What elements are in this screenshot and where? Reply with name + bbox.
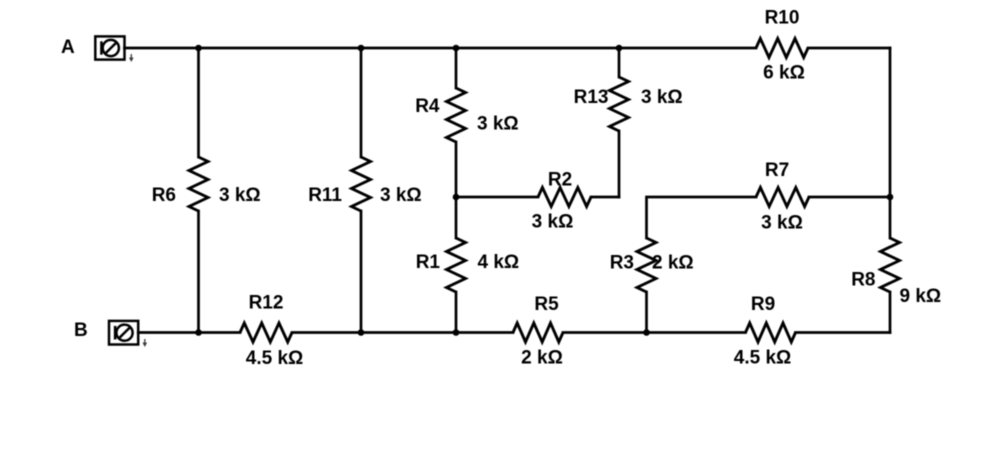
- svg-text:R6: R6: [152, 185, 176, 206]
- junction: bottom rail / R6: [195, 329, 202, 336]
- resistor R7: [756, 188, 809, 207]
- svg-text:R7: R7: [765, 160, 789, 181]
- wire: R11 bottom lead: [360, 211, 363, 333]
- junction: R4 / R1 / R2 node: [453, 194, 460, 201]
- svg-text:3 kΩ: 3 kΩ: [641, 87, 683, 108]
- wire: R6 bottom node to R12 left: [199, 331, 241, 334]
- junction: bottom rail / R3: [643, 329, 650, 336]
- svg-text:6 kΩ: 6 kΩ: [763, 63, 805, 84]
- resistor R10: [756, 39, 808, 58]
- terminal B connector symbol: [109, 321, 138, 345]
- resistor R8: [881, 238, 900, 292]
- svg-text:R9: R9: [751, 294, 775, 315]
- svg-text:R5: R5: [534, 294, 559, 315]
- junction: top rail / R11: [358, 45, 365, 52]
- svg-text:B: B: [74, 320, 88, 341]
- wire: middle node to R2 left: [456, 196, 538, 199]
- wire: R1 bottom lead: [455, 292, 458, 333]
- junction: top rail / R6: [195, 45, 202, 52]
- svg-text:A: A: [61, 37, 75, 58]
- wire: R9 right to bottom-right corner: [796, 331, 891, 334]
- svg-text:2 kΩ: 2 kΩ: [652, 253, 694, 274]
- wire: R3 top corner to R7 left: [647, 197, 757, 238]
- wire: R12 right to R11 bottom node: [292, 331, 361, 334]
- wire: R8 bottom to bottom-right corner: [889, 292, 892, 333]
- wire: R10 right to top-right corner: [808, 47, 890, 50]
- svg-text:R13: R13: [574, 87, 609, 108]
- junction: top rail / R4: [453, 45, 460, 52]
- svg-text:R4: R4: [415, 96, 440, 117]
- junction: bottom rail / R11: [358, 329, 365, 336]
- svg-text:R8: R8: [851, 270, 875, 291]
- svg-text:R1: R1: [416, 252, 441, 273]
- wire: R13 top lead: [618, 48, 621, 77]
- wire: R2 right to R13 branch corner: [591, 196, 619, 199]
- terminal A connector symbol: [95, 36, 124, 59]
- terminal A direction arrow: [130, 54, 133, 61]
- svg-text:4.5 kΩ: 4.5 kΩ: [246, 348, 304, 369]
- resistor R4: [447, 88, 466, 142]
- wire: right rail R7 node down to R8 top: [889, 197, 892, 238]
- resistor R13: [610, 77, 629, 131]
- wire: terminal B to R6 bottom node: [138, 331, 198, 334]
- resistor R3: [637, 238, 656, 292]
- wire: terminal A to node at R6 top: [125, 47, 199, 50]
- junction: top rail / R13: [616, 45, 623, 52]
- wire: R13 bottom lead down to R2 row: [618, 131, 621, 197]
- wire: R6 bottom lead: [197, 211, 200, 333]
- wire: R6 top lead: [197, 48, 200, 157]
- svg-text:3 kΩ: 3 kΩ: [380, 185, 422, 206]
- junction: bottom rail / R1: [453, 329, 460, 336]
- wire: right rail top-right corner down to R7 node: [889, 48, 892, 197]
- resistor R2: [538, 188, 591, 207]
- resistor R6: [189, 157, 208, 211]
- svg-text:3 kΩ: 3 kΩ: [219, 185, 261, 206]
- wire: R11 bottom node to R1 bottom node: [361, 331, 456, 334]
- wire: R13 top to R10 left: [619, 47, 756, 50]
- wire: R4 top lead: [455, 48, 458, 88]
- svg-text:R2: R2: [548, 170, 572, 191]
- resistor R11: [352, 157, 371, 211]
- svg-text:R10: R10: [765, 8, 800, 29]
- svg-text:3 kΩ: 3 kΩ: [761, 213, 803, 234]
- wire: R11 top to R4 top: [361, 47, 456, 50]
- svg-text:4 kΩ: 4 kΩ: [478, 252, 520, 273]
- resistor R12: [240, 323, 292, 342]
- wire: R1 bottom node to R5 left: [456, 331, 513, 334]
- wire: R5 right to R3 bottom node: [563, 331, 647, 334]
- svg-text:9 kΩ: 9 kΩ: [900, 286, 942, 307]
- resistor R1: [447, 238, 466, 292]
- terminal B direction arrow: [143, 339, 146, 346]
- resistor R5: [513, 323, 563, 342]
- wire: R1 top lead: [455, 197, 458, 238]
- svg-text:R11: R11: [308, 185, 342, 206]
- wire: R11 top lead: [360, 48, 363, 157]
- resistor R9: [746, 323, 796, 342]
- wire: R3 bottom lead: [645, 292, 648, 333]
- svg-text:3 kΩ: 3 kΩ: [532, 212, 574, 233]
- wire: R4 bottom lead to middle node: [455, 142, 458, 197]
- svg-text:2 kΩ: 2 kΩ: [521, 348, 563, 369]
- wire: R3 bottom node to R9 left: [647, 331, 746, 334]
- wire: R4 top to R13 top: [456, 47, 619, 50]
- svg-text:R3: R3: [610, 253, 634, 274]
- svg-text:4.5 kΩ: 4.5 kΩ: [734, 348, 792, 369]
- wire: R6 top to R11 top: [199, 47, 362, 50]
- svg-text:3 kΩ: 3 kΩ: [477, 114, 519, 135]
- junction: R7 / right rail node: [887, 194, 894, 201]
- svg-text:R12: R12: [249, 293, 284, 314]
- wire: R7 right to right rail node: [809, 196, 890, 199]
